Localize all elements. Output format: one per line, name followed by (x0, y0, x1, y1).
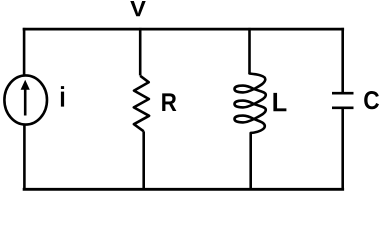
capacitor C: top plate (332, 92, 354, 95)
wire: capacitor bottom lead (341, 109, 344, 191)
node V label (130, 1, 145, 16)
label L (273, 93, 286, 111)
label i (current source) (61, 86, 64, 106)
capacitor C: bottom plate (332, 107, 354, 110)
wire: inductor top lead (248, 28, 251, 74)
wire: left branch bottom lead from current source (23, 124, 26, 191)
wire: top rail (node V) (23, 28, 344, 31)
current source I1: arrow head (21, 80, 30, 90)
wire: inductor bottom lead (249, 133, 252, 191)
wire: resistor top lead (139, 28, 142, 76)
label C (364, 91, 379, 109)
inductor L: coil body (3 loops) (235, 74, 266, 133)
label R (162, 93, 176, 111)
current source I1: circle (4, 75, 47, 124)
wire: bottom rail (ground return) (23, 188, 344, 191)
wire: capacitor top lead (341, 28, 344, 92)
current source I1: arrow shaft (24, 89, 27, 116)
resistor R: zigzag body (134, 76, 149, 132)
wire: resistor bottom lead (142, 131, 145, 190)
wire: left branch top lead to current source (23, 28, 26, 76)
